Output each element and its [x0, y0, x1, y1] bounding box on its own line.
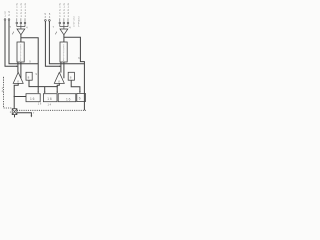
leader stubs above ch1 circles: [17, 18, 25, 22]
rect D (clipped at right edge): [77, 93, 86, 101]
svg-text:1 4: 1 4: [48, 103, 52, 106]
glyph inside B2: [70, 76, 72, 80]
branch junction to rect A left: [14, 96, 26, 98]
antenna circle 2 ch2: [63, 22, 65, 24]
phase shifter rect P2: [60, 42, 67, 62]
antenna circle 1 ch2: [59, 22, 61, 24]
wire apex down ch1: [20, 35, 22, 42]
rect B: [43, 94, 57, 102]
dashed enclosure bottom edge left of mixer: [4, 107, 13, 109]
dashed enclosure bottom edge right of mixer: [17, 109, 86, 111]
glyphs inside rect C: [66, 98, 71, 102]
glyph inside S2: [58, 79, 60, 83]
leader slash for label 7 ch1: [12, 32, 14, 35]
branch wire from S2 output to rect B top: [44, 87, 46, 93]
glyph inside rect D: [79, 96, 81, 100]
svg-text:6: 6: [79, 96, 81, 100]
mixer output wire right with arrowhead: [17, 113, 32, 117]
phi box B1: [26, 72, 32, 80]
combiner triangle U2 (points down): [60, 29, 68, 35]
phi box B2: [68, 72, 74, 80]
wire apex down ch2: [63, 35, 65, 42]
glyphs inside rect B: [47, 97, 52, 101]
input bus ch2: [60, 26, 68, 28]
B1 output wire: down, right across tap junction to S2 branch: [29, 80, 57, 86]
leader slash for label 7 ch2: [55, 32, 57, 35]
dashed enclosure left edge: [3, 77, 5, 108]
summer S2 output: down, left, down to rect C: [57, 83, 59, 92]
B2 output wire: down, right, down into rect D: [71, 80, 80, 92]
leader stubs above ch2 circles: [60, 18, 68, 22]
glyph inside B1: [28, 76, 30, 80]
svg-text:1 6: 1 6: [38, 103, 42, 106]
junction dot on S2 output: [57, 86, 58, 87]
ch2 input wire 1 (x=45.4): [45, 20, 47, 22]
left input wire 2 (x=9): [8, 19, 10, 21]
glyphs inside P1: [20, 44, 22, 63]
glyphs inside P2: [63, 44, 65, 63]
P2 outputs to summer ch2: [61, 62, 64, 78]
phase shifter rect P1: [17, 42, 24, 62]
arrowhead into rect C top: [56, 92, 58, 94]
glyphs inside rect A: [30, 97, 35, 101]
ch2 input wire 2 (x=49.4): [49, 20, 51, 22]
svg-text:1 6: 1 6: [30, 97, 35, 101]
bus to triangle stub ch2: [63, 27, 65, 29]
tap wire ch1: branch right then down to rect A: [21, 38, 38, 93]
antenna circle 3 ch2: [67, 22, 69, 24]
bus to triangle stub ch1: [20, 27, 22, 29]
left input wire 1 (x=5): [4, 19, 6, 21]
arrowhead into rect D top: [79, 92, 81, 94]
junction dot on S1 output: [14, 96, 15, 97]
summer triangle S1 (points up): [13, 72, 23, 83]
svg-text:1 6: 1 6: [47, 97, 52, 101]
glyph inside S1: [17, 79, 19, 83]
mixer bottom stub: [14, 115, 16, 118]
arrowhead into rect B top: [44, 92, 46, 94]
tap wire ch2: right, down, jog right, down to bottom: [64, 37, 85, 110]
antenna circle 2 ch1: [20, 22, 22, 24]
arrowhead of left wire 1: [16, 66, 18, 68]
mixer M1 (box with X): [12, 109, 17, 115]
arrowhead into rect A top: [37, 92, 39, 94]
node label column 21 (ch1 input 1): [2, 3, 81, 115]
P1 outputs to summer ch1: [18, 62, 21, 78]
LPF rect A: [26, 94, 40, 102]
stub wires circles to bus ch1: [17, 24, 25, 27]
summer triangle S2 (points up): [54, 72, 64, 83]
antenna circle 1 ch1: [16, 22, 18, 24]
rect C: [58, 94, 76, 102]
svg-text:1 6: 1 6: [66, 98, 71, 102]
summer S1 output: down, left, down to mixer: [14, 83, 18, 108]
stub wires circles to bus ch2: [60, 24, 68, 27]
input bus ch1: [17, 26, 25, 28]
antenna circle 3 ch1: [24, 22, 26, 24]
arrowhead of ch2 wire 1: [59, 66, 61, 68]
combiner triangle U1 (points down): [17, 29, 25, 35]
